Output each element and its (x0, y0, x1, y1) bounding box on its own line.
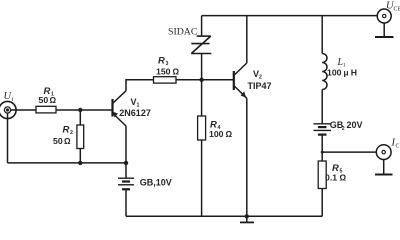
svg-text:CE: CE (394, 7, 400, 13)
resistor R3 (154, 77, 177, 83)
wire rail to inductor (321, 16, 323, 54)
battery GB1 (118, 178, 134, 189)
label 100 uH (327, 68, 357, 78)
label 50 ohm (R1) (39, 95, 57, 105)
svg-text:100: 100 (209, 129, 224, 139)
label 0.1 ohm (R5) (325, 172, 347, 182)
svg-text:100: 100 (327, 68, 342, 78)
SIDAC (191, 36, 211, 53)
wire left rail (8, 162, 127, 164)
wire GB1 to bottom rail (125, 189, 127, 216)
ground (Ic) (375, 160, 393, 175)
label L1 (337, 57, 347, 69)
label GB1 10V (140, 177, 172, 187)
svg-text:150: 150 (156, 67, 171, 77)
svg-text:0.1: 0.1 (325, 172, 337, 182)
ground (V2 emitter) (240, 216, 254, 222)
label UCE (386, 1, 400, 13)
label R5 (332, 163, 343, 175)
wire input to R1 (11, 109, 36, 111)
svg-text:R: R (158, 56, 165, 67)
battery GB2 (314, 124, 332, 135)
terminal Ic (376, 145, 391, 160)
label 100 ohm (R4) (209, 129, 233, 139)
node R3/SIDAC/R4/base junction (199, 78, 203, 82)
wire V1 collector up (126, 80, 154, 91)
label R1 (44, 86, 55, 98)
transistor V1 (113, 91, 127, 126)
svg-text:50: 50 (39, 95, 49, 105)
label 50 ohm (R2) (53, 136, 71, 146)
wire emitter junction to battery GB1 (125, 163, 127, 178)
svg-text:R: R (63, 125, 70, 136)
node tap junction (321, 151, 324, 154)
node R1/R2/base junction (78, 108, 82, 112)
wire junction to R4 (201, 80, 203, 116)
wire GB2 to tap junction (321, 135, 323, 161)
transistor V2 (234, 63, 247, 98)
label R2 (63, 125, 74, 137)
resistor R2 (77, 125, 84, 149)
node ground junction (245, 214, 249, 218)
wire R5 to bottom rail (321, 189, 323, 217)
svg-text:Ω: Ω (226, 130, 233, 139)
wire V1 emitter down (125, 126, 127, 163)
label R3 (158, 56, 169, 68)
svg-text:2: 2 (259, 75, 262, 81)
resistor R1 (36, 106, 56, 113)
svg-text:Ω: Ω (340, 173, 347, 182)
svg-text:Ω: Ω (64, 137, 71, 146)
resistor R5 (318, 161, 326, 189)
ground (UCE) (375, 23, 394, 37)
label Ic (391, 138, 400, 150)
svg-text:GB,10V: GB,10V (140, 177, 172, 187)
svg-text:Ω: Ω (173, 68, 180, 77)
wire V2 collector up to rail (246, 16, 248, 63)
svg-text:2N6127: 2N6127 (119, 108, 151, 118)
svg-text:50: 50 (53, 136, 63, 146)
wire bottom rail (126, 215, 322, 217)
node emitter/battery junction (124, 161, 128, 165)
svg-text:i: i (12, 96, 14, 103)
wire R4 to bottom rail (201, 140, 203, 216)
wire R3 to junction (176, 79, 234, 81)
wire junction down to R2 (79, 110, 81, 125)
wire top rail (202, 15, 378, 17)
label Ui (4, 91, 14, 103)
wire inductor to battery GB2 (321, 90, 323, 124)
wire V2 emitter down to rail (246, 98, 248, 216)
wire SIDAC top to rail (201, 16, 203, 36)
svg-text:TIP47: TIP47 (248, 81, 272, 91)
svg-text:20V: 20V (347, 120, 363, 130)
svg-text:H: H (351, 68, 357, 78)
label V1 (131, 97, 140, 109)
wire R1 to V1 base (56, 109, 112, 111)
resistor R4 (198, 116, 206, 140)
input terminal Ui (0, 101, 16, 118)
label R4 (210, 120, 221, 132)
node R2 bottom junction (78, 161, 82, 165)
wire tap to Ic terminal (322, 151, 376, 153)
svg-text:2: 2 (70, 130, 73, 136)
svg-text:μ: μ (344, 69, 349, 78)
svg-text:Ω: Ω (50, 96, 57, 105)
label GB2 20V (330, 120, 363, 132)
wire SIDAC bottom to junction (201, 54, 203, 80)
svg-text:SIDAC: SIDAC (168, 26, 197, 37)
wire input down (7, 113, 9, 163)
svg-text:2: 2 (342, 126, 345, 132)
wire R2 to left rail (79, 149, 81, 163)
terminal UCE (377, 9, 391, 23)
inductor L1 (322, 54, 327, 90)
label V2 (253, 69, 262, 81)
svg-text:C: C (396, 144, 400, 150)
label 150 ohm (R3) (156, 67, 180, 77)
